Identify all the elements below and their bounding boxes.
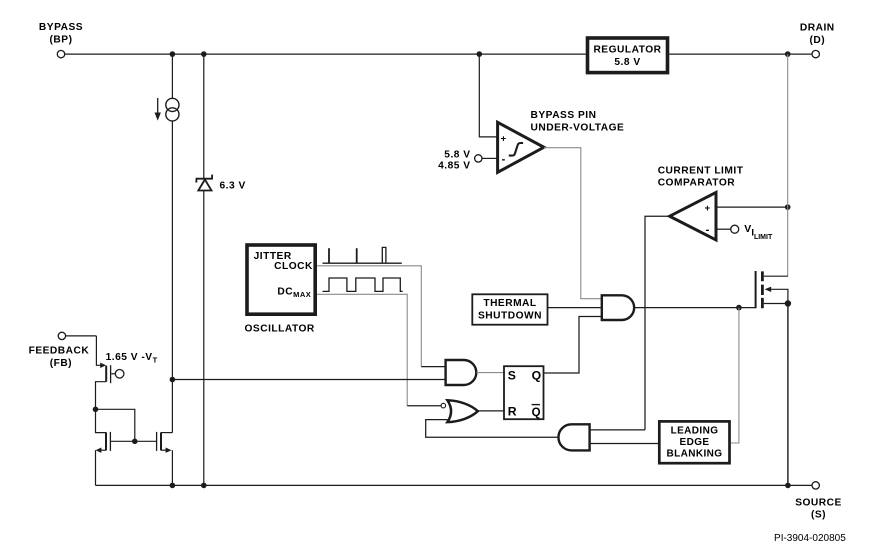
op-amp U2 bypass pin under-voltage comparator [498, 122, 544, 172]
wire UV comparator minus input [482, 157, 497, 159]
wire UV comparator output to AND gate U6 [544, 148, 602, 299]
thermal shutdown block U9 [472, 294, 547, 324]
svg-text:R: R [508, 405, 517, 419]
transistor Q3 mirror right [135, 432, 173, 486]
svg-text:1.65 V -VT: 1.65 V -VT [106, 352, 158, 365]
node UV reference terminal [475, 155, 482, 162]
wire mirror gate link [96, 409, 135, 441]
svg-text:5.8 V: 5.8 V [614, 57, 640, 68]
svg-text:(BP): (BP) [50, 34, 73, 45]
node junction top rail at current source [170, 51, 176, 57]
wire feedback node to AND gate U4 [172, 379, 445, 381]
node junction bottom rail at MOSFET [785, 483, 791, 489]
node SOURCE (S) terminal [795, 482, 842, 521]
svg-text:SHUTDOWN: SHUTDOWN [478, 310, 542, 321]
svg-text:Q: Q [532, 368, 541, 382]
wire current source to mirror [171, 121, 173, 433]
wire FEEDBACK pin to Q1 [66, 335, 97, 337]
svg-text:Q: Q [532, 407, 541, 419]
wire DCMAX output to OR gate bubble [317, 294, 407, 406]
flip-flop U5 S-R latch [504, 366, 544, 419]
node junction drain sense [785, 204, 791, 210]
wire U8 top input from current limit [590, 429, 645, 431]
wire clock output to AND gate U4 [317, 266, 421, 367]
transistor Q4 power MOSFET [756, 271, 792, 308]
node VILIMIT terminal [731, 225, 739, 233]
wire Q output to AND gate U6 [544, 317, 602, 374]
svg-text:CURRENT LIMIT: CURRENT LIMIT [658, 166, 744, 177]
wire plus input to drain line [716, 206, 788, 208]
wire current limit output to AND U8 [645, 216, 670, 430]
wire top rail left (BP to regulator) [65, 53, 586, 55]
jitter clock waveform [323, 247, 402, 263]
node junction top rail at UV comparator tap [477, 51, 483, 57]
node DRAIN (D) terminal [800, 22, 835, 58]
svg-text:S: S [508, 368, 516, 382]
transistor Q2 mirror left [96, 409, 135, 485]
svg-text:OSCILLATOR: OSCILLATOR [245, 323, 315, 334]
AND gate U4 set driver [446, 360, 477, 385]
svg-text:FEEDBACK: FEEDBACK [29, 346, 90, 357]
wire drain vertical [787, 54, 789, 276]
wire MOSFET source to bottom rail [787, 304, 789, 486]
svg-text:BLANKING: BLANKING [667, 448, 723, 459]
svg-text:4.85 V: 4.85 V [438, 160, 470, 171]
label bypass pin under-voltage [531, 110, 625, 133]
svg-text:REGULATOR: REGULATOR [593, 45, 661, 56]
svg-text:EDGE: EDGE [680, 437, 710, 448]
wire minus input to VILIMIT terminal [716, 228, 731, 230]
svg-text:DCMAX: DCMAX [277, 286, 311, 299]
svg-text:PI-3904-020805: PI-3904-020805 [774, 533, 846, 544]
wire U6 output to MOSFET gate [634, 307, 755, 309]
svg-text:(S): (S) [811, 509, 826, 520]
svg-text:+: + [705, 203, 711, 214]
svg-text:THERMAL: THERMAL [483, 298, 536, 309]
wire U8 bottom input from LEB [590, 443, 658, 445]
svg-text:5.8 V: 5.8 V [444, 150, 470, 161]
node junction top rail at zener [201, 51, 207, 57]
svg-text:DRAIN: DRAIN [800, 22, 835, 33]
svg-text:+: + [501, 134, 507, 145]
svg-text:BYPASS PIN: BYPASS PIN [531, 110, 597, 121]
wire top rail right (regulator to drain) [669, 53, 812, 55]
svg-text:SOURCE: SOURCE [795, 498, 842, 509]
svg-text:(FB): (FB) [50, 358, 72, 369]
svg-text:UNDER-VOLTAGE: UNDER-VOLTAGE [531, 123, 625, 134]
OR gate U7 reset [441, 400, 478, 422]
svg-text:-: - [706, 224, 710, 236]
node BYPASS (BP) terminal [39, 22, 83, 58]
zener diode D1 6.3 V [196, 54, 245, 485]
regulator block U1 [588, 38, 668, 73]
svg-text:LEADING: LEADING [671, 426, 719, 437]
AND gate U6 gate driver (3-input) [602, 295, 634, 320]
leading edge blanking block U11 [659, 421, 729, 463]
oscillator block U3 [245, 245, 316, 334]
label 5.8 V / 4.85 V [438, 150, 470, 172]
node junction bottom rail at zener [201, 483, 207, 489]
wire AND U8 output loop to OR input [426, 420, 559, 438]
node junction Q1 source [93, 407, 99, 413]
svg-text:-: - [502, 153, 506, 165]
node junction top rail at drain [785, 51, 791, 57]
node FEEDBACK (FB) terminal [29, 332, 90, 369]
wire OR output to R input [477, 410, 504, 412]
current source I1 [155, 54, 179, 121]
wire U4 output to S input [476, 372, 503, 374]
label current limit comparator [658, 166, 744, 189]
svg-text:6.3 V: 6.3 V [220, 181, 246, 192]
svg-text:CLOCK: CLOCK [274, 261, 313, 272]
wire gate node to leading edge blanking [731, 308, 739, 443]
node junction gate / LEB tap [736, 305, 742, 311]
wire thermal shutdown to AND gate U6 [548, 307, 602, 309]
DCMAX waveform [323, 278, 403, 291]
AND gate U8 blanking (mirrored) [558, 424, 589, 450]
svg-text:COMPARATOR: COMPARATOR [658, 177, 736, 188]
svg-text:(D): (D) [809, 35, 825, 46]
wire UV comparator plus input [479, 54, 497, 137]
node junction mirror gates [132, 439, 138, 445]
wire bottom rail [96, 484, 812, 486]
svg-text:VILIMIT: VILIMIT [744, 223, 773, 241]
node junction bottom rail at Q3 [170, 483, 176, 489]
node junction feedback to AND line [170, 377, 176, 383]
svg-text:BYPASS: BYPASS [39, 22, 83, 33]
op-amp U10 current limit comparator [670, 192, 716, 240]
transistor Q1 feedback sense [96, 336, 124, 409]
